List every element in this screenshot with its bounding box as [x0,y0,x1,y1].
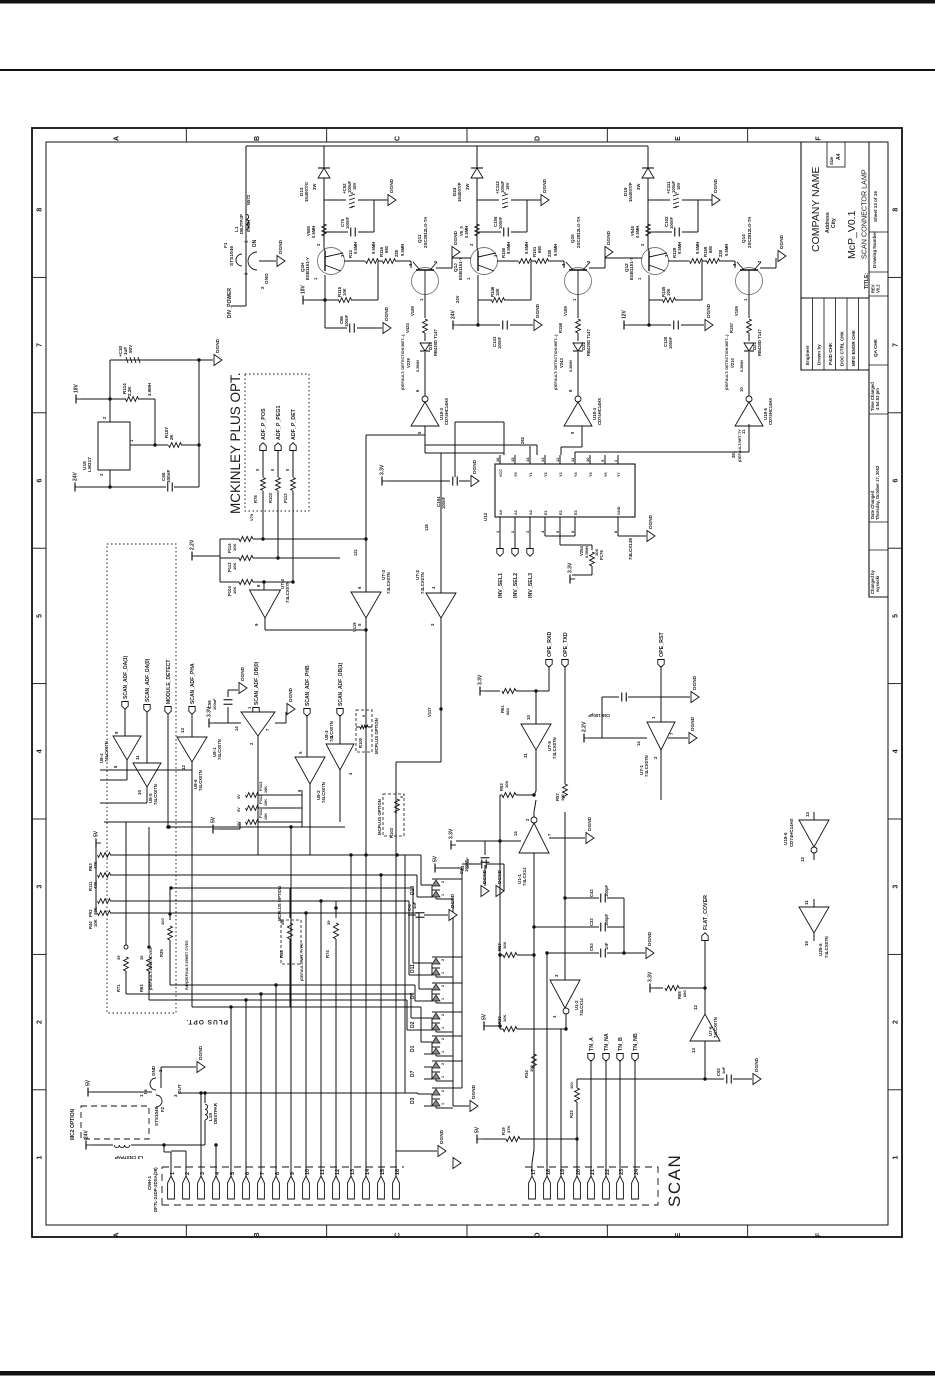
svg-text:2.2K: 2.2K [127,386,132,396]
svg-text:DBJTP4P: DBJTP4P [239,214,244,234]
svg-text:R62: R62 [139,984,144,992]
svg-text:DGND: DGND [606,230,612,245]
svg-text:2.2V: 2.2V [190,539,196,550]
svg-text:CD74HC14HX: CD74HC14HX [597,398,602,425]
svg-text:74LCX07N: 74LCX07N [644,755,649,777]
svg-text:SCAN_ADF_PHA: SCAN_ADF_PHA [190,663,196,704]
svg-text:MC2 OPTION: MC2 OPTION [70,1108,76,1140]
svg-text:3W: 3W [312,184,317,190]
svg-text:1nF: 1nF [721,1066,726,1074]
svg-text:680: 680 [537,245,542,253]
svg-text:Q15: Q15 [570,234,575,243]
svg-text:DFTL-24DP-2DSA(28): DFTL-24DP-2DSA(28) [153,1167,158,1212]
svg-text:DGND: DGND [706,303,712,318]
svg-text:(DEFAULT:NET-TY: (DEFAULT:NET-TY [738,429,742,462]
svg-text:4:54:53 pm: 4:54:53 pm [875,388,880,410]
svg-text:C33: C33 [589,918,594,926]
svg-text:ESB1151-Y: ESB1151-Y [305,257,310,280]
svg-text:262: 262 [520,436,525,444]
svg-text:2: 2 [441,1063,445,1065]
svg-text:13: 13 [691,1048,696,1053]
svg-text:Q11: Q11 [417,234,422,243]
svg-text:2: 2 [441,1090,445,1092]
svg-text:D11: D11 [410,964,416,973]
svg-text:4: 4 [893,749,900,753]
svg-text:ADF_P_PEG1: ADF_P_PEG1 [276,406,282,440]
svg-text:SCAN_ADF_DA(1): SCAN_ADF_DA(1) [123,655,129,699]
svg-text:R33: R33 [569,1110,574,1118]
svg-text:OPE_RST: OPE_RST [659,632,665,657]
svg-text:Y2: Y2 [544,472,548,477]
svg-text:V239: V239 [406,358,411,368]
svg-text:V210: V210 [730,358,735,368]
svg-text:DGND: DGND [648,514,654,529]
svg-text:74LCX07N: 74LCX07N [321,782,326,803]
svg-text:VCC: VCC [499,469,503,477]
svg-text:SCAN_ADF_DB(0): SCAN_ADF_DB(0) [254,661,260,705]
svg-text:100nF: 100nF [344,314,349,327]
svg-text:74LCX138: 74LCX138 [628,538,633,560]
svg-text:15: 15 [510,457,515,462]
svg-text:0.5MH: 0.5MH [415,360,420,372]
svg-text:TN_B: TN_B [618,1037,624,1051]
svg-text:DGND: DGND [471,1084,477,1099]
svg-text:5V: 5V [482,1013,488,1020]
svg-text:12V: 12V [622,309,628,319]
svg-text:City: City [831,218,837,228]
svg-text:DGND: DGND [288,687,294,702]
svg-text:12: 12 [555,457,560,462]
svg-text:18V: 18V [301,284,307,294]
svg-text:GND: GND [617,506,621,515]
svg-text:A1: A1 [514,510,518,515]
svg-text:3.3V: 3.3V [648,971,654,982]
svg-text:16: 16 [495,457,500,462]
svg-text:TN_NA: TN_NA [604,1033,610,1051]
svg-text:V75: V75 [249,513,254,521]
svg-text:2SC2812LG-TA: 2SC2812LG-TA [747,216,752,248]
svg-text:1: 1 [441,972,445,974]
svg-text:2: 2 [893,1020,900,1024]
svg-text:100: 100 [560,794,565,801]
svg-text:Y0: Y0 [514,472,518,477]
svg-text:(DEFAULT: DETECTION MET...): (DEFAULT: DETECTION MET...) [725,334,729,390]
svg-text:GND: GND [264,273,270,284]
svg-text:118: 118 [424,524,429,531]
svg-text:ESB1151-Y: ESB1151-Y [458,257,463,280]
svg-text:TN_A: TN_A [589,1037,595,1051]
svg-text:1N4007/P: 1N4007/P [628,182,633,202]
svg-text:9.5MH: 9.5MH [506,242,511,254]
svg-text:SCAN_ADF_DB(1): SCAN_ADF_DB(1) [338,662,344,706]
svg-text:P&ID CHK: P&ID CHK [828,342,833,365]
svg-text:B: B [254,136,261,141]
svg-text:McP_V0.1: McP_V0.1 [846,210,858,259]
svg-text:DGND: DGND [754,1057,760,1072]
svg-text:3.3V: 3.3V [449,828,455,839]
svg-text:1: 1 [37,1155,44,1159]
svg-text:24V: 24V [84,1129,90,1139]
svg-text:Y5: Y5 [589,472,593,477]
svg-text:9.5MH: 9.5MH [400,244,405,256]
svg-text:TN_NB: TN_NB [633,1033,639,1051]
svg-text:CD74HC14HX: CD74HC14HX [768,398,773,425]
svg-text:10K: 10K [502,942,507,949]
svg-text:1: 1 [441,1027,445,1029]
svg-text:V189: V189 [410,306,415,316]
svg-text:9.5MH: 9.5MH [371,242,376,254]
svg-text:DGND: DGND [713,178,719,193]
svg-text:10K: 10K [232,587,237,594]
svg-text:680: 680 [682,990,687,997]
svg-text:74LCX07N: 74LCX07N [713,1017,718,1038]
svg-text:0.5MH: 0.5MH [635,226,640,238]
svg-text:16V: 16V [676,182,681,190]
svg-text:100: 100 [529,1065,534,1072]
svg-text:100nF: 100nF [465,857,470,869]
svg-text:DGND: DGND [384,306,390,321]
svg-text:OPE_TXD: OPE_TXD [563,632,569,657]
svg-text:228: 228 [547,249,552,257]
svg-text:A: A [114,136,121,141]
svg-text:261: 261 [731,450,736,458]
svg-text:CD74HC14HX: CD74HC14HX [789,818,794,847]
svg-text:74LCX07N: 74LCX07N [824,936,829,958]
svg-text:100pF: 100pF [604,884,609,897]
svg-text:5V: 5V [237,794,241,799]
svg-text:SCAN_ADF_DA(0): SCAN_ADF_DA(0) [145,658,151,702]
svg-text:Y7: Y7 [617,472,621,477]
svg-text:2: 2 [441,1038,445,1040]
svg-text:DN: DN [252,239,258,247]
svg-text:228: 228 [718,249,723,257]
svg-text:A2: A2 [529,510,533,515]
svg-text:DGND: DGND [647,931,653,946]
svg-text:DGND: DGND [439,1129,445,1144]
svg-text:STS1048: STS1048 [154,1106,159,1126]
svg-text:CNH-1: CNH-1 [147,1176,152,1190]
svg-text:10K: 10K [264,813,268,820]
svg-text:0.5MH: 0.5MH [739,360,744,372]
svg-text:DGND: DGND [240,666,246,681]
svg-text:50V: 50V [128,344,133,353]
svg-text:1: 1 [441,894,445,896]
svg-text:Sheet 13 of 16: Sheet 13 of 16 [873,191,878,222]
svg-text:R4?(DEFAULT:39NET CVES: R4?(DEFAULT:39NET CVES [185,940,189,990]
svg-text:(DEFAULT:NET-TYPE: (DEFAULT:NET-TYPE [300,943,304,981]
svg-text:E: E [675,1232,682,1237]
svg-text:F1: F1 [223,242,229,248]
svg-text:1: 1 [441,1103,445,1105]
svg-text:E: E [675,136,682,141]
svg-text:10: 10 [585,457,590,462]
svg-text:N572: N572 [246,194,251,205]
svg-text:MCPLUS OPTION: MCPLUS OPTION [374,718,379,754]
svg-text:10K: 10K [93,919,98,927]
svg-text:DGND: DGND [690,716,696,731]
svg-text:DGND: DGND [389,178,395,193]
svg-text:A4: A4 [836,153,842,160]
svg-text:47K: 47K [93,881,98,889]
svg-text:F: F [815,136,822,141]
svg-text:47K: 47K [506,1126,511,1133]
svg-text:100nF: 100nF [212,698,217,710]
svg-text:D3: D3 [410,1097,416,1104]
svg-text:5V: 5V [237,807,241,812]
svg-text:LM317: LM317 [87,457,93,472]
svg-text:(DEFAULT: DETECTION MET...): (DEFAULT: DETECTION MET...) [401,334,405,390]
svg-text:1N4007/G: 1N4007/G [304,181,309,202]
svg-text:D7: D7 [410,1070,416,1077]
svg-text:DGND: DGND [198,1045,204,1060]
svg-text:DGND: DGND [450,893,456,908]
svg-text:Drawn by: Drawn by [817,344,822,365]
svg-text:100nF: 100nF [441,496,446,509]
svg-text:R52: R52 [279,950,284,958]
svg-text:100nF: 100nF [166,470,171,483]
svg-text:10K: 10K [232,563,237,570]
svg-text:74LCX14: 74LCX14 [522,867,527,886]
svg-text:GND: GND [151,1065,156,1076]
svg-text:74LCX07N: 74LCX07N [198,770,203,791]
svg-text:TITLE:: TITLE: [864,273,870,289]
svg-text:RB420D T147: RB420D T147 [433,329,438,356]
svg-text:74LCX07N: 74LCX07N [552,737,557,759]
svg-text:R158: R158 [558,322,563,333]
svg-text:9.5MH: 9.5MH [724,244,729,256]
svg-text:5V: 5V [433,855,439,862]
svg-text:1: 1 [441,998,445,1000]
svg-text:P312: P312 [258,794,263,804]
svg-text:Thursday, October 17, 2002: Thursday, October 17, 2002 [875,465,880,520]
svg-text:PLUS OPT.: PLUS OPT. [185,1018,228,1025]
svg-text:3W: 3W [465,184,470,190]
svg-text:14: 14 [525,457,530,462]
svg-text:10: 10 [804,941,809,946]
svg-text:P311: P311 [258,808,263,818]
svg-text:100nF: 100nF [668,336,673,349]
svg-text:DGND: DGND [692,675,698,690]
svg-text:74LCX07N: 74LCX07N [386,572,391,594]
svg-text:11: 11 [804,900,809,905]
svg-text:INV_SEL1: INV_SEL1 [498,573,504,598]
svg-text:STS1046: STS1046 [229,246,235,266]
svg-text:DBSTPAR: DBSTPAR [213,1102,218,1124]
svg-text:5V: 5V [94,830,100,837]
svg-text:3.9MH: 3.9MH [147,383,152,396]
svg-text:R103: R103 [389,827,394,838]
svg-text:FLAT_COVER: FLAT_COVER [703,895,709,930]
svg-text:ESB1151-Y: ESB1151-Y [629,257,634,280]
svg-text:DGND: DGND [278,239,284,254]
svg-text:12: 12 [693,1005,698,1010]
svg-text:C65 100pF: C65 100pF [588,713,610,718]
svg-text:5: 5 [893,614,900,618]
svg-text:100nF: 100nF [669,216,674,229]
svg-text:24V: 24V [455,295,460,303]
svg-text:IN: IN [143,1089,148,1094]
svg-text:2K: 2K [169,433,174,440]
svg-text:39: 39 [116,955,121,960]
svg-text:39: 39 [326,920,331,925]
svg-text:2: 2 [441,985,445,987]
svg-text:E2: E2 [559,510,563,515]
svg-text:10K: 10K [232,544,237,551]
svg-text:10: 10 [739,387,744,392]
svg-text:10K: 10K [264,786,268,793]
svg-text:8: 8 [893,208,900,212]
svg-text:DIV_POWER: DIV_POWER [227,288,233,318]
svg-text:3.3V: 3.3V [478,674,484,685]
svg-text:U13: U13 [483,512,488,521]
svg-text:2: 2 [37,1020,44,1024]
svg-text:C: C [394,136,401,141]
svg-text:DGND: DGND [215,338,221,353]
svg-text:680: 680 [708,245,713,253]
svg-text:L3 CNSTPAP: L3 CNSTPAP [115,1155,143,1160]
svg-text:wysocki: wysocki [875,576,880,593]
svg-text:1nF: 1nF [604,942,609,950]
svg-text:U18-6: U18-6 [783,832,788,845]
svg-text:F2: F2 [160,1106,165,1112]
svg-text:R74: R74 [325,950,330,958]
svg-text:INV_SEL3: INV_SEL3 [528,573,534,598]
svg-text:74LCX07N: 74LCX07N [285,581,290,603]
svg-text:C: C [394,1232,401,1237]
svg-text:P313: P313 [258,781,263,791]
svg-text:A: A [114,1232,121,1237]
svg-text:D: D [535,1232,542,1237]
svg-text:SCAN: SCAN [665,1154,684,1207]
svg-text:24V: 24V [73,471,79,481]
svg-text:18V: 18V [74,383,80,393]
svg-text:RB420D T147: RB420D T147 [757,329,762,356]
svg-text:ADF_P_DET: ADF_P_DET [291,408,297,440]
svg-text:0.5MH: 0.5MH [568,360,573,372]
svg-text:Engineer: Engineer [805,345,810,365]
svg-text:10: 10 [526,715,531,720]
svg-text:DGND: DGND [542,178,548,193]
svg-text:B: B [254,1232,261,1237]
svg-text:2: 2 [441,881,445,883]
svg-text:11: 11 [135,755,140,760]
svg-text:0.5MH: 0.5MH [246,220,251,232]
svg-text:QA CHK: QA CHK [873,338,878,357]
svg-text:D: D [535,136,542,141]
svg-text:228: 228 [394,249,399,257]
svg-text:74LCX14: 74LCX14 [579,998,584,1016]
svg-text:MCPLUS OPTION: MCPLUS OPTION [377,799,382,835]
svg-text:DGND: DGND [587,816,593,831]
svg-text:5V: 5V [237,821,241,826]
svg-text:8: 8 [37,208,44,212]
svg-text:13: 13 [805,812,810,817]
svg-text:DGND: DGND [472,459,478,474]
svg-text:U25-5: U25-5 [818,943,823,956]
svg-text:6: 6 [893,478,900,482]
svg-text:7: 7 [37,343,44,347]
svg-text:10K: 10K [264,799,268,806]
svg-text:P176: P176 [599,550,604,560]
svg-text:100: 100 [160,918,165,925]
svg-text:DGND: DGND [482,869,488,884]
svg-text:10K: 10K [502,1015,507,1022]
svg-text:OPE_RXD: OPE_RXD [547,632,553,657]
svg-text:R103: R103 [268,492,273,503]
svg-text:2.2V: 2.2V [582,721,588,732]
svg-text:V189: V189 [563,306,568,316]
svg-text:0.5MH: 0.5MH [584,546,589,558]
svg-text:0.5MH: 0.5MH [464,226,469,238]
svg-text:C53: C53 [589,943,594,951]
svg-text:C42: C42 [589,889,594,897]
svg-text:74LCX07N: 74LCX07N [217,739,222,760]
svg-text:3.3V: 3.3V [568,562,574,573]
svg-text:14: 14 [513,831,518,836]
svg-text:3: 3 [37,885,44,889]
svg-text:3: 3 [893,885,900,889]
svg-text:9.5MH: 9.5MH [695,242,700,254]
svg-text:5V: 5V [475,1126,481,1133]
svg-text:13: 13 [540,457,545,462]
svg-text:MFG ENGR CHK: MFG ENGR CHK [851,329,856,366]
svg-text:INV_SEL2: INV_SEL2 [513,573,519,598]
svg-text:SCAN_ADF_PHB: SCAN_ADF_PHB [305,665,311,706]
svg-text:A0: A0 [499,510,503,515]
svg-text:V117: V117 [427,707,432,717]
svg-text:0.5MH: 0.5MH [311,226,316,238]
svg-text:121: 121 [353,548,358,556]
svg-text:10K: 10K [666,288,671,296]
svg-text:MODULE_DETECT: MODULE_DETECT [166,660,172,704]
svg-text:CD74HC14HX: CD74HC14HX [444,398,449,425]
svg-text:3.3V: 3.3V [380,464,386,475]
svg-text:7: 7 [893,343,900,347]
svg-text:1N4007/P: 1N4007/P [457,182,462,202]
svg-text:RB420D T147: RB420D T147 [586,329,591,356]
svg-text:V243: V243 [559,358,564,368]
svg-text:Y3: Y3 [559,472,563,477]
svg-text:(DEFAULT: DETECTION MET...): (DEFAULT: DETECTION MET...) [554,334,558,390]
svg-text:1: 1 [893,1155,900,1159]
svg-text:13: 13 [180,728,185,733]
svg-text:V119: V119 [352,622,357,632]
svg-text:2: 2 [441,1014,445,1016]
svg-text:1nF: 1nF [412,901,417,909]
svg-text:680: 680 [384,245,389,253]
svg-text:MCPLUS OPTION: MCPLUS OPTION [277,886,282,921]
svg-text:Q14: Q14 [741,234,746,243]
svg-text:V424: V424 [405,323,410,333]
svg-text:100: 100 [569,1082,574,1089]
svg-text:16V: 16V [352,182,357,190]
svg-text:R100: R100 [358,737,363,748]
svg-text:SCAN CONNECTOR LAMP: SCAN CONNECTOR LAMP [860,169,869,259]
svg-text:664: 664 [505,708,510,715]
svg-text:3W: 3W [636,184,641,190]
svg-text:1: 1 [441,1051,445,1053]
svg-text:5V: 5V [211,816,217,823]
svg-text:5V: 5V [86,1079,92,1086]
svg-text:V0.2: V0.2 [876,284,881,293]
svg-text:6: 6 [37,478,44,482]
svg-text:9.5MH: 9.5MH [524,242,529,254]
svg-text:R71: R71 [116,984,121,992]
svg-text:24V: 24V [451,309,457,319]
svg-text:74LCX07N: 74LCX07N [104,741,109,762]
svg-text:100nF: 100nF [498,216,503,229]
svg-text:10K: 10K [504,781,509,788]
